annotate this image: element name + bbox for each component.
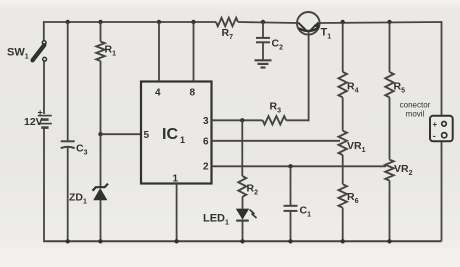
svg-text:2: 2 bbox=[203, 162, 209, 173]
wire pin5 node to zener bbox=[100, 134, 102, 187]
node bottom rail junction C1 bbox=[288, 239, 292, 243]
resistor R6 bbox=[339, 184, 347, 208]
connector movil jack bbox=[430, 116, 453, 142]
svg-text:-: - bbox=[433, 131, 436, 141]
potentiometer VR1 bbox=[339, 131, 347, 155]
node top rail junction C3 bbox=[66, 20, 70, 24]
wire C2 to ground bbox=[262, 42, 264, 60]
wire top rail R7-to-T1 segment bbox=[238, 22, 297, 23]
wire R4 to VR1 bbox=[342, 97, 344, 130]
node pin3 junction R2 bbox=[240, 118, 244, 122]
wire VR1 to R6 bbox=[342, 155, 344, 184]
wire LED to bottom rail bbox=[242, 221, 244, 242]
wire switch to battery bbox=[43, 61, 45, 114]
op-amp IC1 body bbox=[141, 82, 212, 184]
wire top rail left segment bbox=[44, 21, 217, 23]
wire top rail to R4 bbox=[342, 22, 344, 72]
node top rail junction pin8 bbox=[191, 20, 195, 24]
node pin5 junction bbox=[98, 132, 102, 136]
ground bbox=[255, 59, 272, 61]
node pin2 junction C1 bbox=[288, 164, 292, 168]
svg-text:1: 1 bbox=[180, 135, 185, 145]
battery 12V bbox=[38, 115, 52, 117]
svg-text:8: 8 bbox=[190, 88, 196, 99]
node top rail junction C2 bbox=[261, 20, 265, 24]
wire pin 4 bbox=[158, 22, 160, 82]
capacitor C2 bbox=[256, 37, 270, 39]
potentiometer VR2 bbox=[385, 160, 393, 181]
node bottom rail junction C3 bbox=[66, 239, 70, 243]
wire bottom rail bbox=[44, 240, 442, 242]
node bottom rail junction ZD bbox=[98, 239, 102, 243]
svg-text:IC: IC bbox=[162, 126, 178, 143]
wire C3 to bottom rail bbox=[67, 148, 69, 242]
resistor R7 bbox=[216, 18, 238, 26]
wire right side vertical upper bbox=[441, 21, 443, 117]
switch SW1 bbox=[33, 45, 45, 60]
wire VR2 to bottom rail bbox=[389, 181, 391, 242]
wire pin3 node to R2 bbox=[241, 120, 243, 176]
wire zener to bottom rail bbox=[100, 200, 102, 242]
wire top rail to R1 bbox=[100, 22, 102, 42]
wire battery to bottom rail bbox=[43, 129, 45, 243]
svg-text:4: 4 bbox=[155, 88, 161, 99]
node top rail junction R5 bbox=[387, 20, 391, 24]
resistor R1 bbox=[96, 42, 104, 62]
wire left vertical to switch bbox=[43, 21, 45, 40]
wire pin 3 to R3 bbox=[212, 119, 263, 121]
resistor R2 bbox=[238, 176, 246, 197]
resistor R5 bbox=[385, 72, 393, 97]
node top rail junction R1 bbox=[98, 20, 102, 24]
svg-text:12V: 12V bbox=[24, 116, 43, 128]
node bottom rail junction VR2 bbox=[387, 239, 391, 243]
wire R5 to VR2 bbox=[389, 97, 391, 159]
svg-text:movil: movil bbox=[406, 110, 425, 119]
wire pin 2 to VR2 bbox=[212, 165, 387, 167]
wire R6 to bottom rail bbox=[342, 208, 344, 242]
node bottom rail junction pin1 bbox=[174, 239, 178, 243]
node top rail junction pin4 bbox=[157, 20, 161, 24]
capacitor C1 bbox=[284, 205, 298, 207]
wire C1 to bottom rail bbox=[290, 211, 292, 241]
wire pin 1 bbox=[176, 184, 178, 242]
wire top rail to C2 bbox=[262, 22, 264, 38]
svg-text:+: + bbox=[433, 120, 438, 129]
wire R2 to LED bbox=[242, 197, 244, 209]
wire pin 5 bbox=[101, 133, 142, 135]
wire pin 6 to VR1 bbox=[212, 140, 341, 142]
svg-text:5: 5 bbox=[144, 130, 150, 141]
zener diode ZD1 bbox=[93, 184, 109, 191]
LED LED1 bbox=[236, 209, 249, 220]
svg-text:3: 3 bbox=[203, 116, 209, 127]
svg-text:6: 6 bbox=[203, 137, 209, 148]
node bottom rail junction LED bbox=[240, 239, 244, 243]
node top rail junction R4 bbox=[341, 20, 345, 24]
wire right side vertical lower bbox=[441, 141, 443, 241]
wire R1 to pin5 node bbox=[100, 61, 102, 134]
wire top rail to C3 bbox=[67, 22, 69, 141]
wire R3 to T1 corner bbox=[286, 119, 309, 121]
wire pin2 node to C1 bbox=[290, 166, 292, 206]
wire pin 8 bbox=[193, 22, 195, 82]
capacitor C3 bbox=[61, 140, 75, 142]
svg-text:1: 1 bbox=[173, 174, 179, 185]
resistor R3 bbox=[263, 116, 287, 124]
wire top rail to R5 bbox=[389, 22, 391, 72]
wire top rail T1-to-right segment bbox=[320, 22, 442, 23]
node bottom rail junction R6 bbox=[341, 239, 345, 243]
transistor T1 bbox=[297, 12, 320, 35]
svg-text:conector: conector bbox=[400, 101, 431, 110]
svg-text:+: + bbox=[38, 108, 43, 118]
resistor R4 bbox=[339, 72, 347, 98]
wire T1 base down bbox=[308, 32, 310, 122]
